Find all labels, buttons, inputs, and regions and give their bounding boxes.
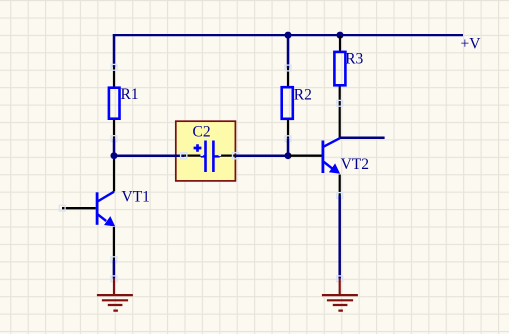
wire C2 to node right	[236, 154, 288, 157]
pin C2 left	[184, 154, 201, 156]
wire VT2 emitter to ground	[338, 195, 341, 279]
pin R2 bottom	[287, 120, 289, 138]
vertex handle	[233, 153, 239, 159]
pin hot end marker	[111, 276, 117, 282]
pin dot marker	[219, 153, 222, 156]
wire R2 bottom to node	[287, 138, 290, 156]
ground VT1 bars	[97, 295, 133, 311]
resistor R2	[282, 87, 293, 119]
wire VT1 emitter to ground	[113, 260, 116, 279]
pin hot end marker	[337, 193, 343, 199]
pin R3 bottom and VT2 collector pin	[339, 87, 341, 138]
pin VT2 base	[290, 155, 322, 157]
transistor VT1 emitter arrow	[104, 216, 115, 226]
wire R1 bottom to node	[113, 138, 116, 155]
pin C2 right	[220, 154, 236, 156]
transistor VT1 emitter diagonal	[98, 214, 107, 221]
node junction on rail R2	[285, 32, 292, 39]
wire output stub	[340, 137, 385, 140]
pin hot end marker	[285, 136, 291, 142]
pin hot end marker	[285, 65, 291, 71]
wire R1 column upper	[113, 34, 116, 67]
vertex handle	[181, 153, 187, 159]
svg-text:R2: R2	[294, 86, 312, 103]
svg-text:+V: +V	[461, 35, 482, 52]
pin hot end marker	[337, 276, 343, 282]
pin hot end marker	[59, 205, 65, 211]
svg-text:VT2: VT2	[341, 156, 369, 173]
capacitor C2 left lead	[201, 155, 205, 157]
node junction left	[111, 152, 118, 159]
resistor R3	[334, 52, 345, 85]
pin VT1 emitter	[113, 227, 115, 260]
svg-text:R1: R1	[121, 86, 139, 103]
ground VT2 stem	[339, 279, 341, 296]
svg-text:C2: C2	[193, 123, 211, 140]
capacitor C2 plus sign	[194, 144, 202, 152]
pin R1 bottom	[113, 120, 115, 138]
pin R2 top	[287, 68, 289, 87]
ground VT1 stem	[113, 279, 115, 296]
pin VT1 base	[62, 207, 96, 209]
capacitor C2 plates	[206, 141, 214, 173]
pin hot end marker	[111, 64, 117, 70]
pin dot marker	[200, 153, 203, 156]
pin hot end marker	[337, 100, 343, 106]
wire top rail +V	[113, 34, 463, 36]
pin hot end marker	[111, 257, 117, 263]
node junction on rail R3	[337, 32, 344, 39]
transistor VT1 base bar	[96, 192, 99, 225]
resistor R1	[109, 88, 120, 119]
ground VT2 bars	[322, 295, 358, 311]
svg-text:R3: R3	[345, 50, 363, 67]
pin hot end marker	[111, 136, 117, 142]
transistor VT1 collector diagonal	[98, 192, 115, 202]
svg-text:VT1: VT1	[122, 189, 150, 206]
wire node to C2 box	[114, 154, 184, 157]
pin VT1 collector	[113, 159, 115, 192]
transistor VT2 collector diagonal	[323, 138, 340, 147]
pin VT2 emitter	[339, 175, 341, 196]
node junction right	[285, 152, 292, 159]
capacitor C2 right lead	[214, 155, 219, 157]
pin R1 top	[113, 67, 115, 87]
transistor VT2 emitter arrow	[329, 163, 340, 173]
transistor VT2 base bar	[321, 141, 324, 174]
pin R3 top	[339, 36, 341, 51]
wire R2 column upper	[287, 35, 290, 68]
transistor VT2 emitter diagonal	[323, 162, 332, 169]
selection box C2	[176, 121, 236, 181]
